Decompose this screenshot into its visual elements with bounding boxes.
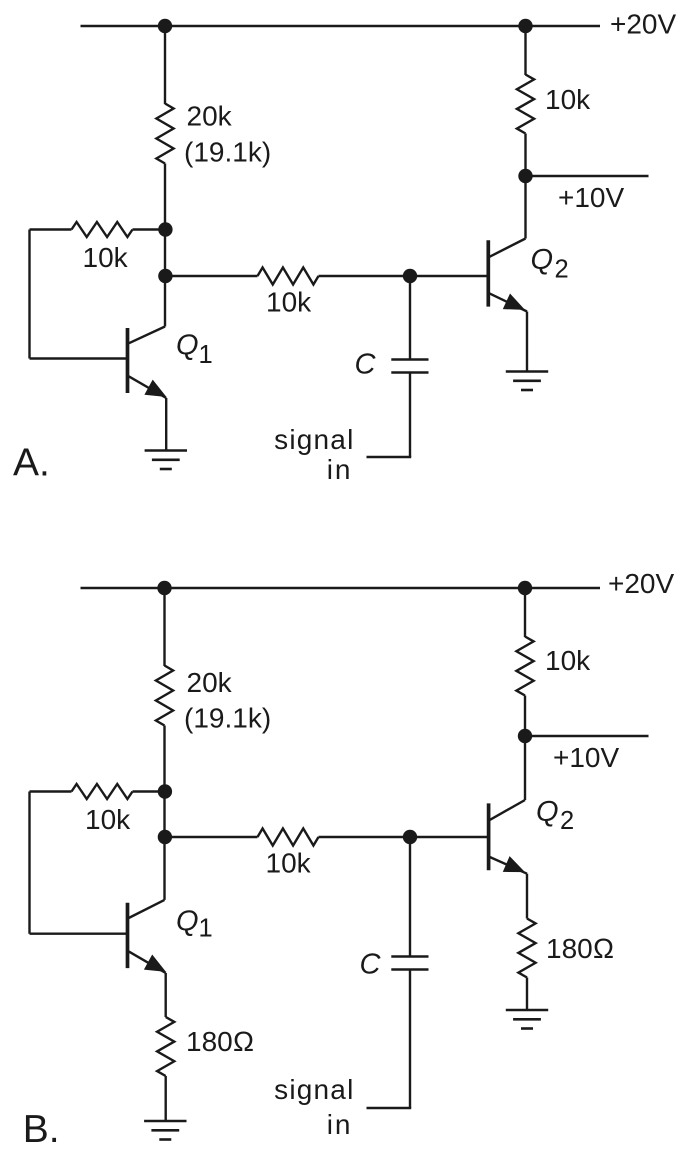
ground Q2 emitter (B) (506, 1009, 548, 1012)
svg-text:20k: 20k (187, 101, 233, 132)
svg-text:1: 1 (199, 341, 213, 369)
wire: +10V output stub (A) (526, 175, 649, 177)
transistor Q1 collector lead (A) (129, 327, 165, 344)
wire: feedback left vertical (B) (28, 792, 30, 934)
wire: +10V output stub (B) (525, 735, 649, 737)
resistor 10k series base Q2 (B) (258, 829, 319, 846)
svg-text:10k: 10k (266, 848, 312, 879)
node: feedback node (B) (158, 784, 172, 798)
transistor Q1 emitter arrow (A) (144, 380, 166, 397)
svg-text:+20V: +20V (610, 9, 676, 40)
resistor 180ohm emitter Q2 (B) (518, 919, 535, 978)
wire: base net node2 to R 10k (A) (165, 275, 258, 277)
svg-text:Q: Q (536, 796, 559, 828)
transistor Q2 collector lead (B) (490, 800, 525, 820)
svg-text:180Ω: 180Ω (546, 933, 614, 964)
resistor 10k feedback (A) (72, 222, 133, 237)
capacitor C plates (B) (391, 955, 428, 958)
node: +10V output node (A) (518, 169, 532, 183)
wire: +10V node to Q2 collector (A) (524, 176, 526, 239)
transistor Q1 base bar (A) (126, 328, 130, 393)
ground Q1 emitter (A) (145, 449, 187, 452)
wire: +20V supply rail (A) (81, 25, 601, 27)
node: Q1 collector / base-net node (B) (158, 830, 172, 844)
node: rail junction right (B) (518, 581, 532, 595)
wire: feedback left vertical (A) (28, 230, 30, 359)
node: feedback node (A) (158, 222, 172, 236)
svg-text:2: 2 (555, 256, 569, 284)
svg-text:(19.1k): (19.1k) (184, 137, 271, 168)
svg-text:10k: 10k (83, 242, 129, 273)
svg-text:C: C (355, 348, 377, 380)
transistor Q1 emitter lead (B) (129, 951, 166, 973)
svg-text:in: in (327, 1109, 353, 1140)
svg-text:C: C (360, 949, 382, 981)
ground Q2 emitter (A) (506, 370, 548, 373)
resistor 20k (19.1k) collector load Q1 (B) (156, 666, 173, 726)
node: rail junction right (A) (518, 19, 532, 33)
transistor Q2 base bar (B) (487, 803, 491, 870)
capacitor C plates (A) (391, 358, 428, 361)
svg-text:10k: 10k (545, 645, 591, 676)
wire: R 10k to +10V node (B) (524, 696, 526, 737)
wire: capacitor to signal input (A) (409, 373, 411, 458)
node: rail junction left (A) (158, 19, 172, 33)
wire: R 180 to ground Q2 (B) (526, 978, 528, 1011)
node: +10V output node (B) (518, 729, 532, 743)
resistor 10k feedback (B) (72, 784, 133, 799)
svg-text:+20V: +20V (608, 568, 674, 599)
svg-text:2: 2 (560, 807, 574, 835)
svg-text:Q: Q (531, 244, 554, 276)
svg-text:signal: signal (274, 424, 354, 455)
svg-text:A.: A. (13, 442, 50, 485)
wire: +20V supply rail (B) (81, 587, 601, 589)
transistor Q1 base bar (B) (126, 903, 130, 968)
resistor 10k collector load Q2 (B) (516, 637, 533, 696)
svg-text:180Ω: 180Ω (186, 1026, 254, 1057)
svg-text:in: in (327, 454, 353, 485)
wire: feedback left segment (A) (30, 228, 72, 230)
wire: Q1 base wire (A) (30, 357, 128, 359)
node: capacitor tap (A) (403, 269, 417, 283)
wire: rail to R 10k right (A) (524, 26, 526, 75)
ground Q1 emitter (B) (144, 1120, 186, 1123)
wire: R 10k to Q2 base (A) (319, 275, 489, 277)
resistor 20k (19.1k) collector load Q1 (A) (156, 104, 173, 164)
svg-text:+10V: +10V (558, 182, 624, 213)
transistor Q2 collector lead (A) (490, 239, 526, 257)
transistor Q2 emitter arrow (B) (503, 856, 525, 872)
wire: R 10k to +10V node (A) (524, 134, 526, 177)
wire: Q1 emitter to ground (A) (165, 398, 167, 451)
wire: R 20k to Q1 collector (B) (163, 726, 165, 900)
wire: rail to R 10k right (B) (524, 588, 526, 637)
wire: feedback right segment (B) (133, 790, 165, 792)
wire: capacitor to signal input (B) (409, 970, 411, 1109)
wire: rail to R 20k (A) (164, 26, 166, 104)
transistor Q2 emitter lead (B) (490, 857, 527, 874)
svg-text:10k: 10k (545, 84, 591, 115)
svg-text:10k: 10k (85, 804, 131, 835)
transistor Q1 collector lead (B) (129, 900, 165, 918)
svg-text:1: 1 (199, 915, 213, 943)
wire: Q2 emitter to ground (A) (526, 312, 528, 372)
svg-text:B.: B. (23, 1108, 60, 1151)
wire: rail to R 20k (B) (163, 588, 165, 666)
wire: R 20k to Q1 collector (A) (164, 164, 166, 327)
transistor Q2 emitter arrow (A) (503, 294, 525, 310)
node: rail junction left (B) (157, 581, 171, 595)
node: Q1 collector / base-net node (A) (158, 269, 172, 283)
transistor Q2 base bar (A) (486, 240, 490, 306)
svg-text:20k: 20k (187, 667, 233, 698)
transistor Q2 emitter lead (A) (490, 293, 528, 311)
wire: R 180 to ground (B) (164, 1076, 166, 1121)
wire: feedback right segment (A) (133, 228, 166, 230)
wire: Q1 emitter to R 180 (B) (164, 973, 166, 1017)
resistor 10k series base Q2 (A) (258, 268, 319, 285)
svg-text:Q: Q (176, 330, 199, 362)
transistor Q1 emitter lead (A) (129, 376, 167, 398)
transistor Q1 emitter arrow (B) (144, 955, 166, 972)
wire: feedback left segment (B) (30, 790, 72, 792)
wire: node to capacitor C (A) (409, 276, 411, 360)
resistor 10k collector load Q2 (A) (517, 75, 534, 134)
svg-text:(19.1k): (19.1k) (184, 703, 271, 734)
svg-text:signal: signal (274, 1074, 354, 1105)
wire: base net node2 to R 10k (B) (165, 836, 258, 838)
wire: node to capacitor C (B) (409, 837, 411, 957)
svg-text:10k: 10k (266, 287, 312, 318)
wire: R 10k to Q2 base (B) (319, 836, 489, 838)
svg-text:+10V: +10V (553, 742, 619, 773)
wire: Q2 emitter to R 180 (B) (526, 874, 528, 919)
node: capacitor tap (B) (403, 830, 417, 844)
wire: +10V node to Q2 collector (B) (524, 736, 526, 800)
svg-text:Q: Q (176, 906, 199, 938)
resistor 180ohm emitter Q1 (B) (157, 1017, 174, 1076)
wire: Q1 base wire (B) (30, 933, 128, 935)
